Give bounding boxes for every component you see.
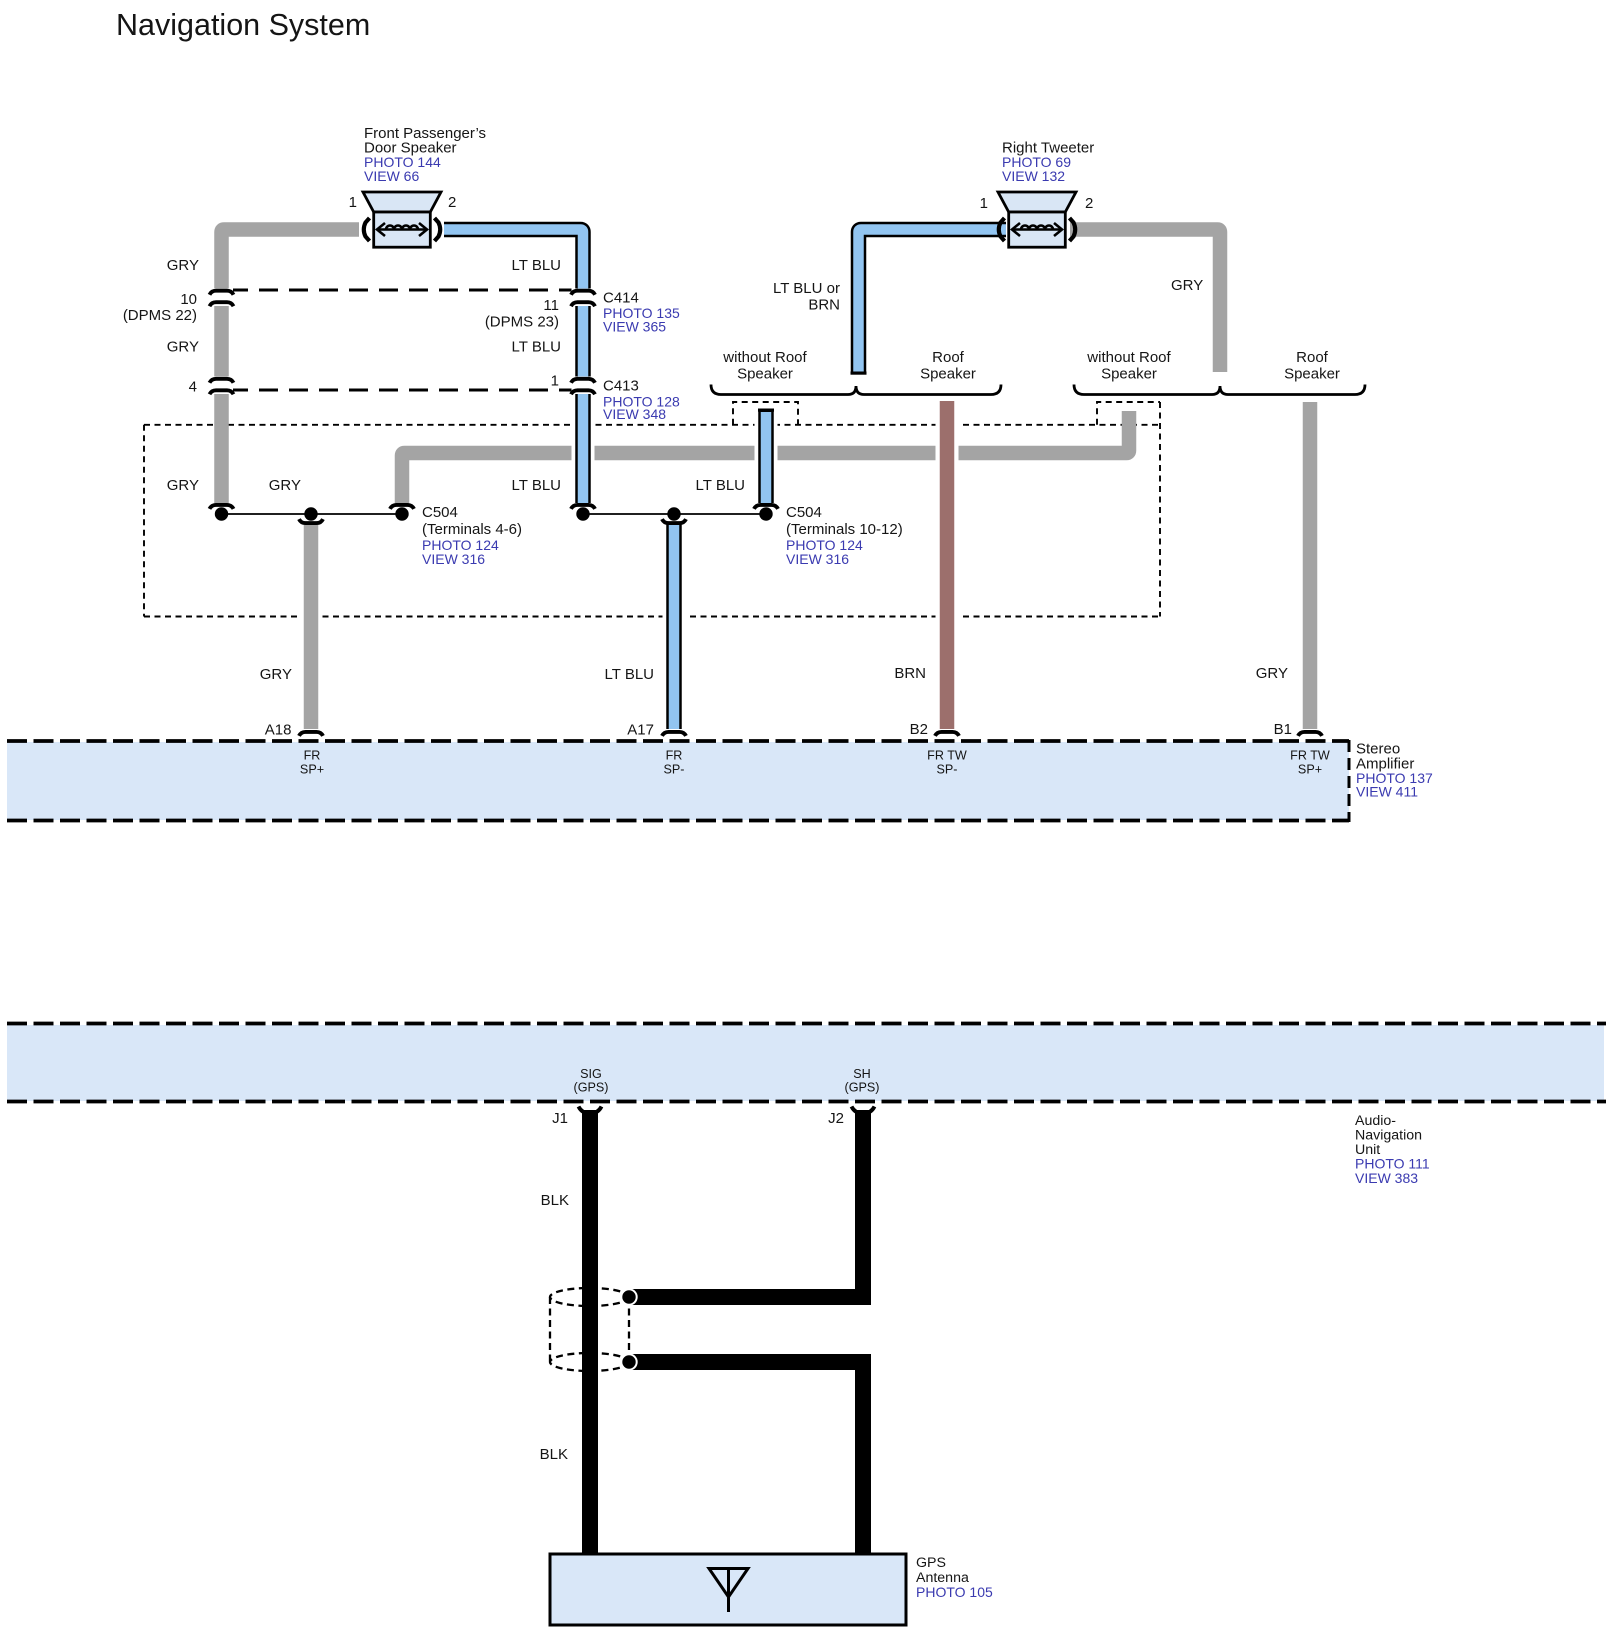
wire top flare at terminal J1: [579, 1107, 602, 1114]
svg-text:J2: J2: [828, 1110, 844, 1127]
wire BRN roof speaker to B2: [936, 398, 959, 736]
svg-text:BRN: BRN: [808, 297, 840, 314]
svg-text:LT BLU: LT BLU: [512, 257, 561, 274]
svg-text:LT BLU: LT BLU: [605, 666, 654, 683]
connector break C414 on GRY wire: [210, 289, 233, 307]
svg-text:2: 2: [448, 194, 456, 211]
shield junction dot upper: [620, 1288, 637, 1305]
wire LT BLU without-roof stub: [755, 406, 778, 468]
connector break C413 on GRY wire: [210, 377, 233, 395]
wire GRY roof speaker to B1: [1303, 402, 1318, 729]
junction dots C504 terminals 4-6: [215, 507, 228, 520]
wire end cap terminal B2: [935, 732, 959, 736]
svg-text:11: 11: [543, 297, 559, 314]
svg-text:B2: B2: [910, 721, 928, 738]
svg-text:Roof: Roof: [932, 349, 965, 366]
svg-text:SH: SH: [853, 1067, 871, 1081]
stereo amplifier band borders: [7, 739, 1349, 743]
svg-text:B1: B1: [1274, 721, 1292, 738]
svg-text:VIEW 348: VIEW 348: [603, 406, 666, 422]
svg-text:LT BLU: LT BLU: [696, 477, 745, 494]
svg-text:C414: C414: [603, 290, 639, 307]
svg-text:(DPMS 22): (DPMS 22): [123, 307, 197, 324]
svg-text:BLK: BLK: [540, 1446, 568, 1463]
harness dotted box: [144, 402, 1160, 617]
connector C413 dashed line: [229, 389, 576, 392]
svg-text:GRY: GRY: [269, 477, 301, 494]
svg-text:SP-: SP-: [664, 763, 685, 777]
shield junction dot lower: [620, 1353, 637, 1370]
svg-text:C504: C504: [422, 504, 458, 521]
svg-text:Speaker: Speaker: [920, 366, 976, 383]
svg-text:C413: C413: [603, 378, 639, 395]
speaker symbol right tweeter: [998, 192, 1076, 247]
svg-text:LT BLU or: LT BLU or: [773, 280, 840, 297]
svg-text:J1: J1: [552, 1110, 568, 1127]
svg-text:C504: C504: [786, 504, 822, 521]
svg-text:GPS: GPS: [916, 1555, 946, 1571]
junction line C504 terminals 10-12: [583, 513, 766, 515]
svg-text:LT BLU: LT BLU: [512, 477, 561, 494]
wire top flare at terminal J2: [852, 1107, 875, 1114]
svg-text:Speaker: Speaker: [1101, 366, 1157, 383]
svg-text:without Roof: without Roof: [1086, 349, 1171, 366]
junction line C504 terminals 4-6: [222, 513, 403, 515]
svg-text:GRY: GRY: [260, 666, 292, 683]
svg-text:2: 2: [1085, 195, 1093, 212]
svg-text:VIEW 316: VIEW 316: [422, 551, 485, 567]
antenna symbol: [709, 1569, 748, 1598]
audio-navigation unit band fill: [7, 1025, 1604, 1101]
wire BLK shield to antenna: [629, 1362, 863, 1554]
wire end cap terminal A18: [299, 732, 323, 736]
svg-text:BLK: BLK: [541, 1192, 569, 1209]
svg-text:FR TW: FR TW: [927, 749, 967, 763]
svg-text:FR: FR: [666, 749, 683, 763]
speaker symbol front passenger door: [363, 192, 441, 247]
svg-text:PHOTO 105: PHOTO 105: [916, 1584, 993, 1600]
shield cylinder: [550, 1288, 629, 1371]
svg-text:(Terminals 4-6): (Terminals 4-6): [422, 521, 522, 538]
svg-text:4: 4: [189, 379, 197, 396]
wire BLK J1 SIG GPS: [582, 1110, 598, 1554]
svg-text:Roof: Roof: [1296, 349, 1329, 366]
wire end cap terminal A17: [662, 732, 686, 736]
wire GRY tweeter pin2: [1070, 230, 1220, 373]
svg-text:VIEW 132: VIEW 132: [1002, 168, 1065, 184]
svg-text:(GPS): (GPS): [574, 1081, 609, 1095]
svg-text:LT BLU: LT BLU: [512, 339, 561, 356]
svg-text:VIEW 365: VIEW 365: [603, 319, 666, 335]
svg-text:A17: A17: [627, 722, 654, 739]
svg-text:SIG: SIG: [580, 1067, 602, 1081]
stereo amplifier band fill: [7, 742, 1349, 820]
svg-text:Speaker: Speaker: [1284, 366, 1340, 383]
option dashed box right: [1097, 402, 1160, 425]
svg-text:FR TW: FR TW: [1290, 749, 1330, 763]
svg-text:VIEW 411: VIEW 411: [1356, 784, 1418, 800]
svg-text:GRY: GRY: [167, 257, 199, 274]
wire LT BLU or BRN tweeter pin1: [859, 230, 1007, 375]
svg-text:VIEW 66: VIEW 66: [364, 168, 419, 184]
svg-text:GRY: GRY: [167, 477, 199, 494]
svg-text:GRY: GRY: [1256, 665, 1288, 682]
svg-text:1: 1: [551, 373, 559, 390]
brace left group: [711, 385, 1001, 395]
svg-text:1: 1: [349, 194, 357, 211]
wire BLK J2 SH GPS: [629, 1110, 863, 1297]
junction dots C504 terminals 10-12: [576, 507, 589, 520]
svg-text:Navigation System: Navigation System: [116, 8, 370, 42]
svg-text:BRN: BRN: [894, 665, 926, 682]
wire GRY A18: [300, 524, 323, 736]
wire LT BLU door speaker pin2: [572, 416, 595, 468]
connector break C413 on LT BLU wire: [572, 377, 595, 395]
wire LT BLU A17: [663, 524, 686, 736]
wire GRY elbow to junction C504: [402, 411, 1129, 504]
svg-text:(DPMS 23): (DPMS 23): [485, 314, 559, 331]
svg-text:SP-: SP-: [937, 763, 958, 777]
wire GRY door speaker pin1: [222, 230, 360, 505]
connector break C414 on LT BLU wire: [572, 289, 595, 307]
svg-text:A18: A18: [265, 722, 292, 739]
svg-text:1: 1: [980, 195, 988, 212]
svg-text:10: 10: [180, 291, 197, 308]
brace right group: [1074, 385, 1365, 395]
svg-text:VIEW 316: VIEW 316: [786, 551, 849, 567]
option dashed box left: [733, 402, 798, 425]
svg-text:GRY: GRY: [1171, 277, 1203, 294]
svg-text:SP+: SP+: [1298, 763, 1322, 777]
svg-text:(Terminals 10-12): (Terminals 10-12): [786, 521, 903, 538]
audio-navigation band borders: [7, 1022, 1606, 1026]
wire end caps at junction C504 terminals 4-6: [210, 505, 234, 509]
svg-text:Speaker: Speaker: [737, 366, 793, 383]
svg-text:VIEW 383: VIEW 383: [1355, 1170, 1418, 1186]
connector C414 dashed line: [229, 289, 576, 292]
svg-text:without Roof: without Roof: [722, 349, 807, 366]
svg-text:GRY: GRY: [167, 339, 199, 356]
svg-text:(GPS): (GPS): [845, 1081, 880, 1095]
wire end caps at junction C504 terminals 10-12: [571, 505, 595, 509]
GPS antenna box: [550, 1554, 906, 1625]
svg-text:FR: FR: [304, 749, 321, 763]
svg-text:SP+: SP+: [300, 763, 324, 777]
wire end cap terminal B1: [1298, 732, 1322, 736]
